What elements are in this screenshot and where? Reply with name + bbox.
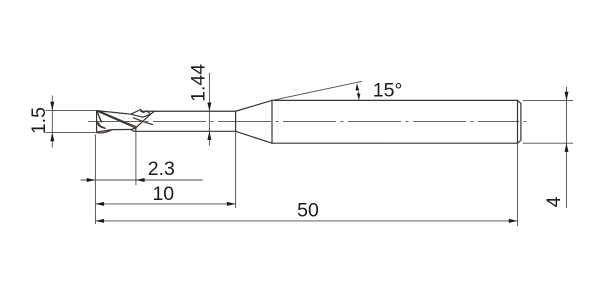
dim 2.3 dimension line (81, 179, 203, 181)
dim 4 ext line bottom (523, 142, 573, 144)
shank end chamfer (518, 100, 521, 143)
end gash arc inner (99, 123, 105, 128)
svg-text:50: 50 (297, 200, 319, 222)
arrow 1.5 bottom (up) (50, 133, 54, 142)
cutter end face (96, 111, 98, 133)
neck bottom edge (136, 130, 236, 132)
flute runout fade to neck (134, 118, 153, 125)
arrow 10 left (95, 202, 104, 206)
bottom silhouette to flute end (112, 129, 131, 131)
dim 1.5 ext line top (46, 109, 97, 111)
svg-text:4: 4 (543, 196, 565, 207)
dim 1.5 ext line bottom (46, 132, 98, 134)
shank top edge (272, 99, 518, 101)
taper top edge (236, 100, 272, 111)
flute end vertical (135, 128, 137, 131)
bottom lens lower line (97, 130, 112, 133)
arrow 50 right (509, 219, 518, 223)
shank bottom edge (272, 142, 518, 144)
svg-text:1.44: 1.44 (187, 64, 209, 102)
shank end edge (517, 100, 519, 143)
arrow 15deg top (356, 84, 360, 91)
dim 4 dimension line (566, 87, 568, 208)
arrow 1.5 top (down) (50, 102, 54, 111)
cutter top land edge (97, 111, 131, 115)
arrow 15deg bottom (357, 93, 361, 100)
svg-text:2.3: 2.3 (148, 158, 175, 180)
svg-text:10: 10 (152, 183, 174, 205)
left shared extension line (tip) (94, 135, 96, 225)
neck-taper junction line (235, 111, 237, 131)
end tooth edge 2 (98, 114, 101, 122)
flag runout to neck silhouette (151, 111, 155, 114)
flute helix edge 2 (99, 111, 137, 127)
arrow 1.44 top (down) (207, 103, 211, 112)
svg-text:1.5: 1.5 (28, 107, 50, 134)
dim 10 right extension line (235, 131, 237, 208)
arrow 2.3 right (points left, outside) (136, 178, 145, 182)
flute helix edge 1 (97, 111, 136, 128)
dim 1.5 dimension line (51, 96, 53, 148)
centerline end dash (523, 121, 526, 123)
upper flute runout flag (131, 110, 151, 118)
flute runout to flute end (136, 114, 151, 128)
arrow 50 left (95, 219, 104, 223)
taper-shank junction line (271, 100, 273, 143)
dim 50 right extension line (517, 143, 519, 226)
arrow 10 right (227, 202, 236, 206)
end tooth edge 1 (97, 111, 102, 122)
centerline (88, 121, 519, 123)
taper angle extension line (272, 81, 362, 100)
neck top edge (141, 110, 236, 112)
dim 1.44 dimension line (208, 73, 210, 146)
15 deg arc arrow line (357, 84, 359, 99)
arrow 2.3 left (points right, outside) (87, 178, 96, 182)
dim 4 ext line top (523, 99, 573, 101)
arrow 1.44 bottom (up) (207, 131, 211, 140)
dim 50 dimension line (95, 220, 517, 222)
flute end leaf top (131, 128, 135, 129)
arrow 4 top (down) (565, 92, 569, 101)
flute end leaf bottom (131, 130, 136, 132)
svg-text:15°: 15° (373, 80, 403, 102)
dim 10 dimension line (95, 203, 235, 205)
end gash arc outer (97, 123, 105, 129)
bottom lens upper line (97, 130, 112, 133)
arrow 4 bottom (up) (565, 143, 569, 152)
dim 2.3 right extension line (135, 131, 137, 185)
taper bottom edge (236, 131, 272, 143)
